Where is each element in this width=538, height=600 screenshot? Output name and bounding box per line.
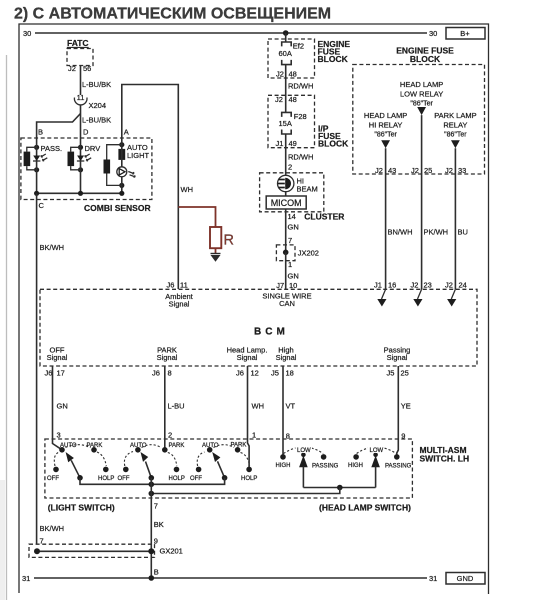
cluster box: [260, 173, 324, 212]
svg-text:7: 7: [154, 502, 158, 511]
svg-text:L-BU/BK: L-BU/BK: [82, 116, 111, 125]
svg-text:J6: J6: [45, 369, 53, 378]
svg-text:2: 2: [288, 163, 292, 172]
svg-text:J6: J6: [236, 369, 244, 378]
svg-text:L-BU: L-BU: [168, 402, 185, 411]
label ENGINE FUSE BLOCK middle: [318, 39, 351, 64]
svg-text:OFF: OFF: [47, 476, 59, 482]
svg-text:R: R: [224, 233, 234, 249]
svg-text:Signal: Signal: [387, 353, 408, 362]
svg-text:PASSING: PASSING: [312, 463, 339, 469]
wire switch common to ground pin 7: [150, 478, 152, 578]
svg-text:Ef2: Ef2: [293, 42, 304, 51]
wire JX202 to BCM: [285, 252, 287, 289]
junction JX202: [276, 245, 319, 261]
svg-text:GN: GN: [288, 223, 299, 232]
svg-text:(LIGHT SWITCH): (LIGHT SWITCH): [48, 503, 115, 513]
svg-text:BLOCK: BLOCK: [318, 139, 349, 149]
svg-text:HIGH: HIGH: [276, 463, 291, 469]
wire arrow into BCM at J1 16: [377, 289, 386, 306]
svg-text:BCM: BCM: [254, 327, 289, 338]
pin J2 24: [445, 281, 467, 290]
pin J1 16: [374, 281, 396, 290]
svg-text:RD/WH: RD/WH: [288, 153, 313, 162]
switch S1 light switch pole 2: [118, 443, 185, 482]
svg-text:J2: J2: [445, 281, 453, 290]
svg-text:"86"Ter: "86"Ter: [410, 101, 433, 108]
svg-text:HOLP: HOLP: [241, 476, 257, 482]
FATC control unit: [67, 38, 93, 66]
wire Passing signal YE to head lamp switch pin 9: [397, 366, 399, 457]
svg-text:48: 48: [289, 70, 297, 79]
svg-text:PARK: PARK: [169, 443, 185, 449]
svg-text:J5: J5: [271, 369, 279, 378]
photodiode DRV: [77, 154, 91, 161]
svg-text:DRV: DRV: [85, 144, 101, 153]
wire FATC to X204: [80, 66, 82, 96]
pin J2 23: [411, 281, 432, 290]
wire fuse F28 to cluster: [285, 134, 287, 176]
label I/P FUSE BLOCK: [318, 124, 349, 149]
svg-text:J1: J1: [276, 139, 284, 148]
pin J2 48 engine fuse block: [276, 70, 297, 79]
BCM box: [40, 289, 477, 366]
svg-text:WH: WH: [252, 402, 265, 411]
svg-text:24: 24: [459, 281, 467, 290]
svg-text:18: 18: [286, 369, 294, 378]
svg-text:15A: 15A: [279, 119, 292, 128]
svg-text:J2: J2: [445, 166, 453, 175]
wire Head Lamp signal WH to light switch pin 1: [248, 366, 250, 469]
label OFF Signal: [47, 346, 68, 363]
page edge shading: [0, 55, 7, 600]
junction GX201: [29, 544, 183, 557]
resistor AUTO LIGHT parallel branch: [104, 145, 122, 186]
svg-text:JX202: JX202: [298, 249, 319, 258]
svg-text:BK/WH: BK/WH: [40, 524, 65, 533]
svg-text:BLOCK: BLOCK: [410, 54, 441, 64]
svg-text:J6: J6: [152, 369, 160, 378]
svg-text:PARK LAMP: PARK LAMP: [434, 111, 476, 120]
pin J6 11 BCM ambient: [167, 281, 188, 290]
node junction rail 31: [149, 575, 155, 581]
svg-text:31: 31: [429, 574, 437, 583]
wire PARK relay to BCM J2 24: [454, 148, 456, 289]
svg-text:43: 43: [388, 166, 396, 175]
svg-text:GN: GN: [57, 402, 68, 411]
label SINGLE WIRE CAN: [262, 292, 311, 309]
switch S2 head lamp switch pole 2: [348, 445, 412, 488]
svg-text:BK/WH: BK/WH: [40, 243, 65, 252]
svg-text:AUTO: AUTO: [130, 443, 147, 449]
svg-text:PARK: PARK: [87, 443, 103, 449]
switch S2 head lamp switch pole 1: [276, 445, 339, 488]
svg-text:60A: 60A: [279, 49, 292, 58]
svg-text:56: 56: [83, 64, 91, 73]
svg-text:OFF: OFF: [118, 476, 130, 482]
label Head Lamp. Signal: [227, 346, 268, 363]
svg-text:B: B: [154, 568, 159, 577]
relay HEAD LAMP LOW RELAY: [400, 80, 443, 115]
pin J5 18: [271, 369, 294, 378]
label MULTI-ASM SWITCH. LH: [420, 445, 470, 464]
svg-text:PASS.: PASS.: [41, 144, 63, 153]
svg-text:31: 31: [22, 574, 30, 583]
node junction rail 30 to fuse: [283, 30, 289, 36]
svg-text:J2: J2: [275, 95, 283, 104]
svg-text:AUTO: AUTO: [60, 443, 77, 449]
fuse Ef2 60A: [279, 42, 305, 65]
svg-text:AUTO: AUTO: [202, 443, 219, 449]
switch S1 light switch pole 3: [190, 443, 257, 482]
svg-text:8: 8: [168, 369, 172, 378]
photodiode PASS: [33, 154, 47, 161]
svg-text:(HEAD LAMP SWITCH): (HEAD LAMP SWITCH): [319, 503, 411, 513]
fuse F28 15A: [279, 112, 307, 134]
svg-text:J6: J6: [167, 281, 175, 290]
pin J2 33: [445, 166, 466, 175]
svg-text:GND: GND: [457, 574, 474, 583]
wire rail 31: [34, 577, 427, 579]
node B+: [446, 28, 485, 40]
I/P fuse block box: [268, 95, 315, 147]
svg-text:LIGHT: LIGHT: [127, 151, 150, 160]
svg-text:30: 30: [23, 29, 31, 38]
svg-text:Signal: Signal: [276, 353, 297, 362]
svg-text:SWITCH. LH: SWITCH. LH: [420, 454, 470, 464]
node GND: [446, 573, 485, 585]
wire combi C to GX201 BK/WH: [36, 193, 38, 544]
svg-text:J2: J2: [411, 166, 419, 175]
svg-text:OFF: OFF: [190, 476, 202, 482]
wire arrow into BCM at J2 23: [413, 289, 422, 306]
svg-text:C: C: [39, 201, 45, 210]
svg-text:J2: J2: [375, 166, 383, 175]
wire PASS vertical: [36, 138, 38, 193]
indicator HI BEAM lamp: [278, 175, 294, 191]
svg-text:VT: VT: [286, 402, 296, 411]
svg-text:2) С АВТОМАТИЧЕСКИМ ОСВЕЩЕНИЕМ: 2) С АВТОМАТИЧЕСКИМ ОСВЕЩЕНИЕМ: [14, 6, 331, 23]
switch S1 light switch pole 1: [47, 443, 114, 482]
svg-text:CAN: CAN: [279, 299, 295, 308]
label Ambient Signal: [165, 292, 193, 309]
wire LOW relay to BCM J2 23: [421, 115, 423, 289]
svg-text:"86"Ter: "86"Ter: [444, 132, 467, 139]
svg-text:11: 11: [180, 281, 188, 290]
wire combi sensor pin B branch: [37, 114, 81, 139]
pin J2 43: [375, 166, 396, 175]
label HI BEAM: [297, 177, 318, 194]
svg-text:A: A: [124, 128, 129, 137]
wire AUTO LIGHT main: [121, 138, 123, 193]
svg-text:J2: J2: [68, 64, 76, 73]
wire PARK signal L-BU to light switch pin 2: [164, 366, 166, 450]
wire High signal VT to head lamp switch pin 8: [282, 366, 284, 457]
svg-text:GX201: GX201: [160, 547, 183, 556]
svg-text:PASSING: PASSING: [385, 463, 412, 469]
svg-text:PK/WH: PK/WH: [424, 228, 449, 237]
svg-text:33: 33: [458, 166, 466, 175]
pin J5 25: [387, 369, 409, 378]
svg-text:Signal: Signal: [237, 353, 258, 362]
svg-text:J1: J1: [374, 281, 382, 290]
svg-text:PARK: PARK: [231, 443, 247, 449]
svg-text:HEAD LAMP: HEAD LAMP: [400, 80, 443, 89]
pin J6 17: [45, 369, 65, 378]
svg-text:GN: GN: [288, 272, 299, 281]
pin J1 49: [276, 139, 297, 148]
label PARK Signal: [157, 346, 178, 363]
svg-text:B+: B+: [460, 29, 470, 38]
ground below resistor R: [211, 254, 221, 262]
engine fuse block box (middle): [268, 39, 315, 78]
svg-text:D: D: [83, 128, 89, 137]
svg-text:YE: YE: [401, 402, 411, 411]
svg-text:WH: WH: [181, 185, 194, 194]
svg-text:COMBI SENSOR: COMBI SENSOR: [84, 203, 151, 213]
svg-text:25: 25: [424, 166, 432, 175]
svg-text:BU: BU: [458, 228, 468, 237]
label High Signal: [276, 346, 297, 363]
wire X204 to combi sensor pin D: [80, 105, 82, 139]
svg-text:LOW: LOW: [297, 448, 311, 454]
svg-text:11: 11: [77, 93, 85, 102]
svg-text:BK: BK: [154, 520, 164, 529]
svg-text:X204: X204: [89, 101, 107, 110]
label ENGINE FUSE BLOCK right: [396, 46, 454, 65]
resistor DRV sensor: [68, 147, 81, 170]
svg-text:"86"Ter: "86"Ter: [374, 132, 397, 139]
pin J2 48 I/P fuse block: [275, 95, 297, 104]
svg-text:HIGH: HIGH: [348, 463, 363, 469]
svg-text:12: 12: [251, 369, 259, 378]
pin J2 25: [411, 166, 432, 175]
svg-text:HOLP: HOLP: [169, 476, 185, 482]
svg-text:LOW: LOW: [370, 448, 384, 454]
node junction dots DRV branch: [78, 145, 83, 150]
wire rail 30 to fuse Ef2: [285, 33, 287, 42]
wire rail 30: [35, 32, 427, 34]
resistor R pull-down (red): [178, 207, 234, 253]
label AUTO LIGHT: [127, 143, 150, 160]
svg-text:J5: J5: [387, 369, 395, 378]
wire fuse Ef2 to I/P fuse block: [285, 65, 287, 113]
wire DRV vertical: [80, 138, 82, 193]
svg-text:Signal: Signal: [157, 353, 178, 362]
wire arrow into BCM at J2 24: [447, 289, 456, 306]
svg-text:23: 23: [424, 281, 432, 290]
node junction dots AUTO LIGHT branch: [119, 142, 124, 147]
relay HEAD LAMP HI RELAY: [364, 111, 407, 148]
svg-text:BN/WH: BN/WH: [388, 228, 413, 237]
svg-text:CLUSTER: CLUSTER: [304, 212, 344, 222]
svg-text:HEAD LAMP: HEAD LAMP: [364, 111, 407, 120]
phototransistor AUTO LIGHT: [117, 167, 135, 177]
svg-text:B: B: [38, 128, 43, 137]
wire light switch common bus: [80, 478, 225, 487]
svg-text:MICOM: MICOM: [271, 198, 302, 208]
label Passing Signal: [384, 346, 411, 363]
svg-text:HOLP: HOLP: [98, 476, 114, 482]
pin J7 10 BCM: [276, 281, 297, 290]
svg-text:FATC: FATC: [67, 38, 89, 48]
svg-text:J2: J2: [276, 70, 284, 79]
micom U1: [266, 196, 306, 209]
wire MICOM to JX202: [285, 209, 287, 252]
svg-text:Signal: Signal: [169, 300, 190, 309]
wire HI BEAM to MICOM: [285, 192, 287, 196]
node junction dots bottom rail: [34, 191, 124, 196]
svg-text:2: 2: [168, 431, 172, 440]
svg-text:25: 25: [401, 369, 409, 378]
svg-text:30: 30: [429, 29, 437, 38]
svg-text:1: 1: [252, 431, 256, 440]
connector X204 pin 11: [74, 93, 106, 110]
svg-text:1: 1: [288, 260, 292, 269]
pin J6 8: [152, 369, 172, 378]
svg-text:LOW RELAY: LOW RELAY: [400, 90, 443, 99]
svg-text:L-BU/BK: L-BU/BK: [82, 80, 111, 89]
wire combi sensor bottom rail: [37, 192, 122, 194]
svg-text:17: 17: [57, 369, 65, 378]
engine fuse block box (right): [353, 65, 485, 175]
svg-text:7: 7: [288, 236, 292, 245]
wire head lamp switch common bus: [149, 485, 376, 497]
svg-text:48: 48: [289, 95, 297, 104]
svg-text:49: 49: [289, 139, 297, 148]
svg-text:16: 16: [388, 281, 396, 290]
svg-text:BEAM: BEAM: [297, 185, 318, 194]
resistor AUTO LIGHT series: [118, 149, 125, 160]
combi sensor ambient output wire pin A to BCM J6 11: [122, 85, 179, 290]
svg-text:Signal: Signal: [47, 353, 68, 362]
node junction dots PASS branch: [34, 145, 39, 150]
svg-text:F28: F28: [294, 112, 307, 121]
svg-text:HI RELAY: HI RELAY: [369, 121, 403, 130]
combi sensor box: [21, 138, 152, 200]
svg-text:J2: J2: [411, 281, 419, 290]
wire HI relay to BCM J1 16: [385, 148, 387, 289]
multi-asm switch box: [45, 439, 413, 498]
resistor PASS sensor: [24, 147, 37, 170]
svg-text:RD/WH: RD/WH: [288, 82, 313, 91]
svg-text:14: 14: [288, 212, 296, 221]
wire OFF signal GN to light switch pin 3: [53, 366, 63, 450]
svg-text:3: 3: [57, 431, 61, 440]
relay PARK LAMP RELAY: [434, 111, 476, 148]
svg-text:BLOCK: BLOCK: [318, 54, 349, 64]
pin J6 12: [236, 369, 259, 378]
svg-text:RELAY: RELAY: [443, 121, 467, 130]
